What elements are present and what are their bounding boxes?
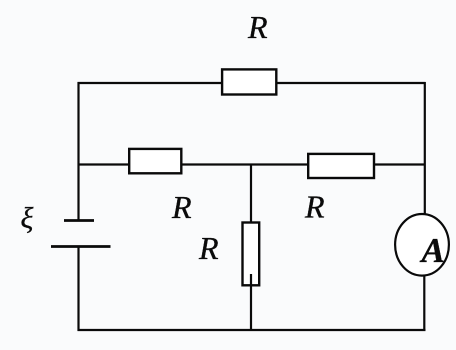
battery long plate bbox=[51, 245, 111, 248]
svg-text:R: R bbox=[304, 189, 325, 225]
svg-text:R: R bbox=[171, 189, 192, 225]
wire middle vertical upper (node to resistor) bbox=[250, 165, 252, 223]
wire right vertical lower bbox=[423, 276, 425, 331]
wire right vertical upper bbox=[424, 82, 426, 214]
wire middle horizontal bbox=[79, 163, 426, 165]
resistor R1 top bbox=[222, 69, 276, 94]
wire top horizontal bbox=[78, 82, 426, 84]
wire bottom horizontal bbox=[78, 329, 426, 331]
wire middle vertical lower (through resistor bottom) bbox=[250, 274, 252, 331]
wire left lower (battery to bottom) bbox=[77, 247, 79, 332]
svg-text:R: R bbox=[198, 230, 219, 266]
svg-text:ξ: ξ bbox=[21, 202, 34, 235]
battery short plate bbox=[64, 219, 94, 222]
resistor R2 left middle bbox=[129, 149, 181, 173]
resistor R3 right middle bbox=[308, 154, 374, 178]
ammeter A circle bbox=[395, 214, 449, 276]
wire left upper (node to battery) bbox=[77, 82, 79, 221]
svg-text:R: R bbox=[247, 9, 268, 45]
resistor R4 vertical bbox=[243, 223, 260, 286]
svg-text:A: A bbox=[420, 231, 445, 270]
